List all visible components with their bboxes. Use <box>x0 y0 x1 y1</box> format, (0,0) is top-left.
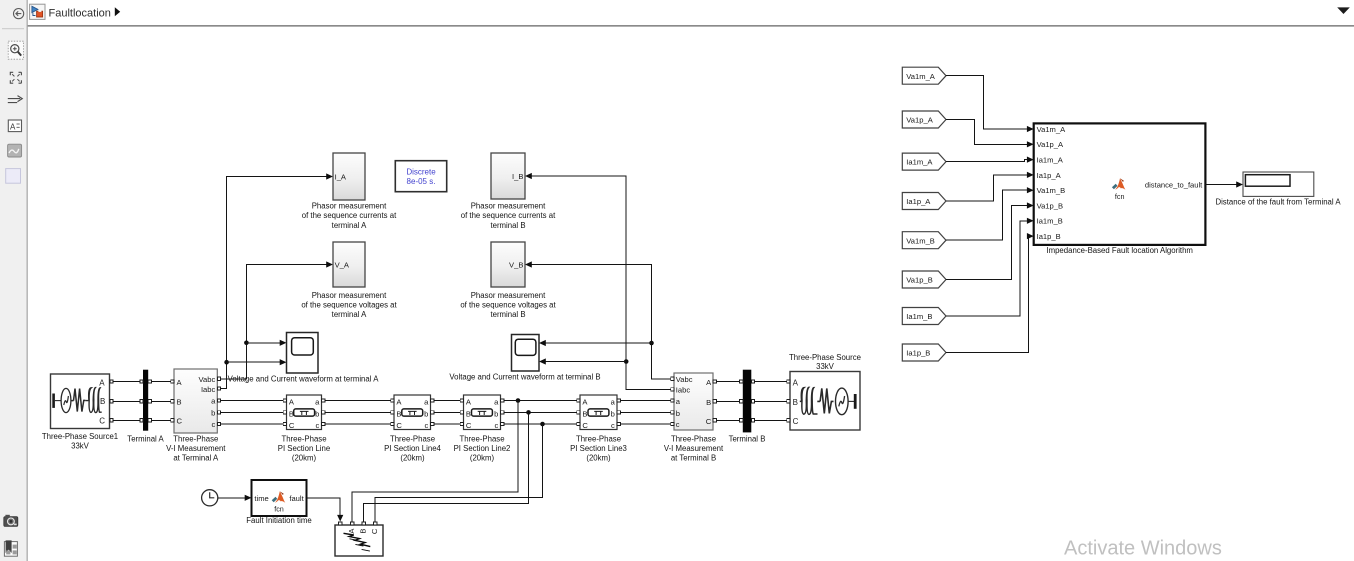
svg-text:V_B: V_B <box>509 261 523 270</box>
wire LINE2.a to LINE3.A with junction to fault <box>504 398 577 403</box>
svg-text:fcn: fcn <box>1115 192 1125 201</box>
svg-text:of the sequence voltages at: of the sequence voltages at <box>301 300 397 309</box>
svg-text:at Terminal A: at Terminal A <box>173 453 219 462</box>
svg-text:b: b <box>611 409 615 418</box>
wire Va1p_B to FCN2.6 <box>946 202 1034 279</box>
wire VIA.b to LINE1.B <box>221 411 284 413</box>
svg-text:B: B <box>466 409 471 418</box>
svg-text:I_B: I_B <box>512 172 523 181</box>
svg-text:Va1m_B: Va1m_B <box>906 236 935 245</box>
svg-text:Va1p_B: Va1p_B <box>1037 201 1063 210</box>
wire VIA.c to LINE1.C <box>221 423 284 425</box>
svg-text:B: B <box>582 409 587 418</box>
wire TerminalA to VIA.B <box>152 400 171 402</box>
measurement block VIB (Three-Phase V-I Measurement at Terminal B) <box>674 373 713 430</box>
svg-text:B: B <box>793 398 798 407</box>
wire VIB.C to TerminalB <box>716 419 739 421</box>
wire TerminalA to VIA.A <box>152 381 171 383</box>
wire LINE2.c to LINE3.C with junction to fault <box>504 422 577 427</box>
svg-text:Ia1p_A: Ia1p_A <box>1037 171 1062 180</box>
svg-text:b: b <box>315 409 319 418</box>
LINE4 caption <box>384 434 441 462</box>
UI chrome: palette dropdown triangle <box>1337 7 1350 14</box>
from tag Ia1m_B <box>902 308 946 325</box>
subsystem I_A (Phasor measurement of the sequence currents at terminal A) <box>333 153 365 200</box>
I_A caption <box>302 202 397 230</box>
svg-text:B: B <box>359 529 368 534</box>
Terminal A caption <box>127 434 164 443</box>
three-phase source SRC2 (Three-Phase Source 33kV) <box>790 372 860 431</box>
svg-text:c: c <box>495 421 499 430</box>
svg-text:Ia1m_B: Ia1m_B <box>906 312 932 321</box>
powergui block (Discrete 8e-05 s.) <box>395 161 446 192</box>
svg-text:Va1p_B: Va1p_B <box>906 276 932 285</box>
svg-text:Ia1p_B: Ia1p_B <box>906 349 930 358</box>
svg-text:C: C <box>396 421 402 430</box>
svg-text:V_A: V_A <box>335 261 350 270</box>
svg-text:Fault Initiation time: Fault Initiation time <box>246 516 311 525</box>
fault block (Three-Phase Fault) <box>335 522 383 556</box>
svg-text:PI Section Line3: PI Section Line3 <box>570 444 627 453</box>
svg-text:c: c <box>212 420 216 429</box>
net Iabc_B: VIB.Iabc to I_B and ScopeB.2 <box>525 173 671 390</box>
UI chrome: camera icon <box>4 515 18 527</box>
svg-text:Ia1m_A: Ia1m_A <box>1037 156 1064 165</box>
Display caption <box>1215 198 1341 207</box>
svg-text:at Terminal B: at Terminal B <box>671 453 716 462</box>
wire VIA.a to LINE1.A <box>221 400 284 402</box>
SRC1 caption <box>42 432 118 450</box>
svg-text:Va1m_B: Va1m_B <box>1037 186 1066 195</box>
VIB caption <box>664 434 724 462</box>
svg-text:Ia1p_B: Ia1p_B <box>1037 232 1061 241</box>
subsystem V_A (Phasor measurement of the sequence voltages at terminal A) <box>333 242 365 287</box>
VIA input ports A,B,C <box>171 380 174 422</box>
I_B caption <box>461 202 556 230</box>
UI chrome: image/curve icon <box>8 144 22 157</box>
svg-text:Iabc: Iabc <box>676 386 691 395</box>
svg-text:Phasor measurement: Phasor measurement <box>471 291 546 300</box>
svg-text:B: B <box>177 398 182 407</box>
svg-text:terminal A: terminal A <box>332 310 367 319</box>
wire SRC1.C to TerminalA <box>113 419 140 421</box>
svg-text:C: C <box>289 421 295 430</box>
wire VIB.B to TerminalB <box>716 400 739 402</box>
svg-text:Voltage and Current waveform a: Voltage and Current waveform at terminal… <box>449 372 600 381</box>
UI chrome: signal arrows icon <box>8 96 22 103</box>
svg-text:fcn: fcn <box>274 505 284 514</box>
from tag Ia1p_A <box>902 193 946 210</box>
svg-text:B: B <box>396 409 401 418</box>
net Iabc_A: VIA.Iabc to I_A and ScopeA.2 <box>221 173 333 388</box>
svg-text:terminal B: terminal B <box>490 310 525 319</box>
svg-text:Discrete: Discrete <box>406 167 436 176</box>
wire TerminalA to VIA.C <box>152 419 171 421</box>
wire Ia1m_B to FCN2.7 <box>946 218 1034 316</box>
VIA caption <box>166 434 226 462</box>
UI chrome: fit-to-view icon <box>10 72 21 83</box>
scope ScopeA (Voltage and Current waveform at terminal A) <box>287 333 319 374</box>
svg-text:33kV: 33kV <box>71 441 90 450</box>
svg-text:B: B <box>706 398 711 407</box>
svg-text:(20km): (20km) <box>400 453 425 462</box>
svg-text:Vabc: Vabc <box>199 375 216 384</box>
svg-text:C: C <box>370 528 379 534</box>
wire Va1m_B to FCN2.5 <box>946 187 1034 240</box>
svg-text:Three-Phase: Three-Phase <box>576 434 621 443</box>
svg-text:Va1p_A: Va1p_A <box>906 116 933 125</box>
bus bar Terminal B <box>740 370 755 433</box>
FCN1 caption <box>246 516 311 525</box>
svg-text:C: C <box>582 421 588 430</box>
svg-text:c: c <box>611 421 615 430</box>
FCN2 caption <box>1046 246 1193 255</box>
svg-text:Faultlocation: Faultlocation <box>49 7 111 19</box>
clock block <box>202 490 218 506</box>
wire Ia1p_A to FCN2.4 <box>946 172 1034 201</box>
wire TerminalB to SRC2.C <box>755 419 787 421</box>
V_A caption <box>301 291 397 319</box>
wire FCN1.fault to fault block control <box>307 498 344 522</box>
wire LINE3.c to VIB.c <box>620 423 670 425</box>
svg-text:C: C <box>99 417 105 426</box>
LINE2 caption <box>454 434 511 462</box>
wire TerminalB to SRC2.A <box>755 381 787 383</box>
svg-text:time: time <box>254 494 268 503</box>
VIB left ports Vabc,Iabc,a,b,c <box>671 377 674 425</box>
svg-text:Ia1m_B: Ia1m_B <box>1037 217 1063 226</box>
svg-text:PI Section Line2: PI Section Line2 <box>454 444 511 453</box>
ScopeB caption <box>449 372 600 381</box>
pi-section line LINE3 (Three-Phase PI Section Line3 20km) <box>577 395 621 430</box>
watermark: Activate Windows <box>1064 538 1222 560</box>
svg-text:Iabc: Iabc <box>201 385 216 394</box>
svg-text:A: A <box>10 122 16 131</box>
wire LINE3.a to VIB.a <box>620 400 670 402</box>
net Vabc_B: VIB.Vabc to V_B and ScopeB.1 <box>525 261 671 378</box>
svg-text:Voltage and Current waveform a: Voltage and Current waveform at terminal… <box>228 374 380 383</box>
wire fault phase A drop <box>352 401 518 522</box>
svg-text:Three-Phase: Three-Phase <box>390 434 435 443</box>
svg-text:(20km): (20km) <box>292 453 317 462</box>
from tag Va1p_B <box>902 271 946 288</box>
from tag Ia1m_A <box>902 153 946 170</box>
svg-text:C: C <box>177 417 183 426</box>
wire Va1p_A to FCN2.2 <box>946 120 1034 148</box>
wire LINE3.b to VIB.b <box>620 411 670 413</box>
matlab function FCN1 (Fault Initiation time) <box>252 480 307 516</box>
SRC1 output ports A,B,C <box>110 380 113 422</box>
LINE1 caption <box>278 434 330 462</box>
bus bar Terminal A <box>140 370 152 431</box>
wire LINE1.b to LINE4.B <box>325 411 391 413</box>
wire Ia1m_A to FCN2.3 <box>946 157 1034 163</box>
display block (Distance of the fault from Terminal A) <box>1243 172 1314 196</box>
VIA output ports Vabc,Iabc,a,b,c <box>217 377 220 425</box>
svg-text:of the sequence voltages at: of the sequence voltages at <box>460 300 556 309</box>
svg-text:C: C <box>706 417 712 426</box>
pi-section line LINE2 (Three-Phase PI Section Line2 20km) <box>460 395 504 430</box>
svg-text:Distance of the fault from Ter: Distance of the fault from Terminal A <box>1215 198 1341 207</box>
SRC2 input ports A,B,C <box>787 380 790 422</box>
svg-text:C: C <box>466 421 472 430</box>
svg-text:(20km): (20km) <box>470 453 495 462</box>
svg-text:b: b <box>424 409 428 418</box>
svg-text:Three-Phase: Three-Phase <box>173 434 218 443</box>
wire VIB.A to TerminalB <box>716 381 739 383</box>
UI chrome: back button icon <box>14 9 24 19</box>
svg-text:B: B <box>100 397 105 406</box>
wire fault phase C drop <box>375 424 542 522</box>
from tag Va1m_A <box>902 67 946 84</box>
svg-text:Phasor measurement: Phasor measurement <box>312 291 387 300</box>
svg-text:8e-05 s.: 8e-05 s. <box>407 177 436 186</box>
svg-text:Three-Phase: Three-Phase <box>671 434 716 443</box>
svg-text:A: A <box>99 378 105 387</box>
scope ScopeB (Voltage and Current waveform at terminal B) <box>512 335 540 372</box>
UI chrome: zoom tool icon (selected) <box>8 41 23 59</box>
svg-text:Vabc: Vabc <box>676 375 693 384</box>
svg-text:Three-Phase Source1: Three-Phase Source1 <box>42 432 118 441</box>
svg-text:Phasor measurement: Phasor measurement <box>312 202 387 211</box>
UI chrome: pale square icon <box>6 169 21 184</box>
svg-text:terminal B: terminal B <box>490 221 525 230</box>
svg-text:V-I Measurement: V-I Measurement <box>664 444 724 453</box>
wire LINE2.b to LINE3.B with junction to fault <box>504 410 577 415</box>
UI chrome: model browser icon <box>4 540 17 556</box>
svg-text:distance_to_fault: distance_to_fault <box>1145 181 1203 190</box>
measurement block VIA (Three-Phase V-I Measurement at Terminal A) <box>174 369 217 433</box>
svg-text:c: c <box>676 420 680 429</box>
svg-text:Three-Phase: Three-Phase <box>459 434 504 443</box>
LINE3 caption <box>570 434 627 462</box>
wire SRC1.A to TerminalA <box>113 381 140 383</box>
svg-text:Va1m_A: Va1m_A <box>906 72 935 81</box>
svg-text:V-I Measurement: V-I Measurement <box>166 444 226 453</box>
svg-text:Ia1p_A: Ia1p_A <box>906 197 931 206</box>
svg-text:Impedance-Based Fault location: Impedance-Based Fault location Algorithm <box>1046 246 1193 255</box>
UI chrome: Simulink model icon <box>30 4 45 19</box>
svg-text:Three-Phase: Three-Phase <box>281 434 326 443</box>
svg-text:Phasor measurement: Phasor measurement <box>471 202 546 211</box>
UI chrome: annotation icon <box>8 120 21 132</box>
SRC2 caption (above block) <box>789 353 861 371</box>
svg-text:c: c <box>425 421 429 430</box>
svg-text:of the sequence currents at: of the sequence currents at <box>302 211 397 220</box>
wire Va1m_A to FCN2.1 <box>946 76 1034 132</box>
V_B caption <box>460 291 556 319</box>
svg-text:C: C <box>793 417 799 426</box>
svg-text:b: b <box>676 409 680 418</box>
UI chrome: breadcrumb expander triangle <box>115 7 120 16</box>
svg-text:I_A: I_A <box>335 173 347 182</box>
three-phase source SRC1 (Three-Phase Source1 33kV) <box>51 374 110 429</box>
svg-text:Three-Phase Source: Three-Phase Source <box>789 353 861 362</box>
matlab function FCN2 (Impedance-Based Fault location Algorithm) <box>1034 123 1206 244</box>
UI chrome: sidebar separator <box>2 28 24 29</box>
svg-text:terminal A: terminal A <box>332 221 367 230</box>
wire LINE4.a to LINE2.A <box>434 400 460 402</box>
UI chrome: breadcrumb title <box>49 7 111 19</box>
Terminal B caption <box>729 434 766 443</box>
ScopeA caption <box>228 374 380 383</box>
wire clock to FCN1.time <box>218 495 252 501</box>
wire LINE4.c to LINE2.C <box>434 423 460 425</box>
svg-text:b: b <box>211 409 215 418</box>
UI chrome: left palette sidebar <box>0 0 28 561</box>
svg-text:PI Section Line: PI Section Line <box>278 444 330 453</box>
svg-text:b: b <box>494 409 498 418</box>
wire LINE1.a to LINE4.A <box>325 400 391 402</box>
svg-text:A: A <box>793 378 799 387</box>
wire LINE4.b to LINE2.B <box>434 411 460 413</box>
svg-text:33kV: 33kV <box>816 362 835 371</box>
svg-text:of the sequence currents at: of the sequence currents at <box>461 211 556 220</box>
from tag Ia1p_B <box>902 344 946 361</box>
pi-section line LINE4 (Three-Phase PI Section Line4 20km) <box>391 395 434 430</box>
svg-text:Terminal A: Terminal A <box>127 434 164 443</box>
svg-text:(20km): (20km) <box>586 453 611 462</box>
wire TerminalB to SRC2.B <box>755 400 787 402</box>
svg-text:fault: fault <box>289 494 304 503</box>
pi-section line LINE1 (Three-Phase PI Section Line 20km) <box>283 395 325 430</box>
from tag Va1m_B <box>902 232 946 249</box>
wire SRC1.B to TerminalA <box>113 400 140 402</box>
VIB output ports A,B,C <box>713 380 716 422</box>
subsystem V_B (Phasor measurement of the sequence voltages at terminal B) <box>491 242 525 287</box>
wire FCN2.distance_to_fault to Display <box>1205 181 1243 187</box>
svg-text:PI Section Line4: PI Section Line4 <box>384 444 441 453</box>
svg-text:Va1p_A: Va1p_A <box>1037 140 1064 149</box>
svg-text:Va1m_A: Va1m_A <box>1037 125 1066 134</box>
from tag Va1p_A <box>902 111 946 128</box>
wire fault phase B drop <box>364 412 529 521</box>
net Vabc_A: VIA.Vabc to V_A and ScopeA.1 <box>221 261 333 378</box>
svg-text:Activate Windows: Activate Windows <box>1064 538 1222 560</box>
UI chrome: breadcrumb bar bottom border <box>28 25 1354 27</box>
svg-text:c: c <box>316 421 320 430</box>
wire LINE1.c to LINE4.C <box>325 423 391 425</box>
subsystem I_B (Phasor measurement of the sequence currents at terminal B) <box>491 153 525 199</box>
wire Ia1p_B to FCN2.8 <box>946 233 1034 353</box>
svg-text:Terminal B: Terminal B <box>729 434 766 443</box>
svg-text:Ia1m_A: Ia1m_A <box>906 158 933 167</box>
